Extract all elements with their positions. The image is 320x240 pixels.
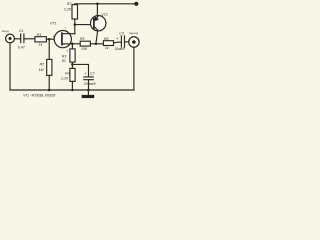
output connector X2: [129, 37, 139, 47]
node emitter rail junction: [96, 3, 99, 6]
capacitor C3: [121, 36, 124, 47]
wire: [133, 47, 135, 90]
svg-text:C1: C1: [19, 29, 24, 33]
wire: [114, 41, 122, 44]
svg-text:+: +: [84, 71, 87, 76]
svg-text:выход: выход: [129, 31, 138, 35]
wire source run: [72, 43, 80, 45]
wire top rail: [75, 3, 137, 6]
node gate junction: [48, 38, 51, 41]
wire: [48, 75, 50, 90]
svg-text:VT2: VT2: [101, 13, 108, 17]
node rail junction C2: [87, 89, 90, 92]
resistor R6: [103, 41, 113, 46]
svg-text:82: 82: [62, 59, 66, 63]
svg-text:C3: C3: [119, 31, 124, 35]
node rail junction R2: [48, 89, 51, 92]
wire: [46, 38, 54, 40]
svg-text:R4: R4: [65, 71, 70, 75]
resistor R5: [80, 41, 90, 46]
svg-text:10мкФ: 10мкФ: [114, 47, 125, 51]
svg-text:R2: R2: [40, 62, 45, 66]
svg-text:R6: R6: [104, 37, 109, 41]
svg-text:2,2K: 2,2K: [60, 76, 69, 80]
wire: [48, 39, 50, 59]
svg-text:R5: R5: [80, 37, 85, 41]
wire R7 bottom: [74, 19, 76, 25]
svg-text:0,47: 0,47: [18, 46, 26, 50]
transistor VT1 (JFET КП303): [54, 30, 71, 47]
transistor VT2 (PNP): [91, 16, 106, 31]
svg-text:+: +: [116, 36, 119, 41]
svg-text:1к: 1к: [39, 43, 43, 47]
resistor R3: [71, 44, 73, 49]
resistor R7: [72, 5, 78, 19]
svg-text:1к: 1к: [105, 46, 109, 50]
wire drain up: [74, 25, 76, 34]
wire: [14, 38, 20, 40]
svg-text:15K: 15K: [81, 47, 88, 51]
resistor R2: [47, 59, 52, 75]
svg-text:VT1 - КП303В, КП303Г: VT1 - КП303В, КП303Г: [23, 93, 56, 97]
node R3/R4 junction: [71, 62, 73, 68]
capacitor C1: [21, 34, 24, 43]
input connector X1: [6, 34, 15, 43]
wire bottom rail: [10, 89, 134, 91]
wire: [125, 41, 129, 43]
svg-text:C2: C2: [90, 71, 95, 75]
node supply terminal: [134, 2, 138, 6]
svg-text:R3: R3: [62, 54, 67, 58]
wire: [90, 43, 103, 45]
node source junction: [71, 43, 74, 46]
svg-text:R1: R1: [37, 33, 42, 37]
node collector junction: [95, 43, 98, 46]
wire: [9, 43, 11, 90]
node rail junction R4: [71, 89, 74, 92]
capacitor C2: [84, 77, 94, 80]
wire to C2: [72, 64, 88, 76]
resistor R4: [70, 68, 75, 81]
ground: [87, 90, 89, 95]
wire: [88, 80, 90, 90]
wire base: [75, 24, 94, 26]
node drain junction: [74, 23, 77, 26]
svg-text:2,2K: 2,2K: [63, 8, 72, 12]
resistor R1: [35, 37, 47, 42]
svg-text:1М: 1М: [39, 68, 44, 72]
svg-text:VT1: VT1: [50, 21, 57, 25]
svg-text:вход: вход: [2, 29, 9, 33]
svg-text:220мкФ: 220мкФ: [83, 82, 97, 86]
wire: [71, 81, 73, 90]
wire: [24, 38, 35, 40]
